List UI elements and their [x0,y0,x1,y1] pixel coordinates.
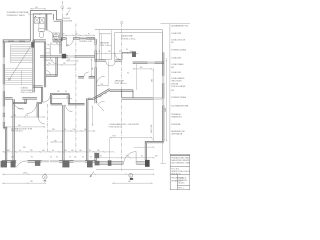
svg-text:90: 90 [52,150,54,152]
dim vertical x92.5 [92,106,94,127]
svg-text:06.2015: 06.2015 [178,182,184,184]
svg-text:NA BUDYNKU MIESZK.: NA BUDYNKU MIESZK. [171,159,190,162]
dim line y183 left [2,182,46,184]
door arc x38 [38,118,45,125]
dim line y53 top annex [95,53,138,55]
svg-text:LOKAL HANDEL: LOKAL HANDEL [171,77,185,80]
fixture small dark [35,16,36,17]
svg-text:110: 110 [71,150,74,152]
wall bottom left y161 [2,161,96,163]
svg-text:90: 90 [82,157,84,159]
svg-text:SZER. 280: SZER. 280 [151,125,153,133]
svg-text:PRZEBIEGI: PRZEBIEGI [171,114,181,116]
svg-text:LOKAL NR3: LOKAL NR3 [171,32,181,35]
svg-text:10.80: 10.80 [165,108,167,112]
pier x95 bottom [94,153,99,158]
wire sill line y169.7 [96,169,154,171]
window right wall upper [162,76,164,84]
door arc zaplecze [96,76,104,84]
pier stair top [31,42,34,48]
dim vertical x166.3 outside right wall [165,58,167,141]
fixture small rect room2 [46,49,51,54]
svg-text:90: 90 [141,156,143,158]
door arc stair exit [13,99,23,109]
text lokal handlowy [109,123,140,129]
wall mid horizontal y56 [40,56,95,57]
dim ext x108.7 [108,61,110,84]
text pomieszczenia right of entry [79,38,94,43]
pier bottom 4 [62,161,69,168]
door arc below y57 wall [51,57,57,63]
svg-text:110: 110 [74,157,77,159]
window bottom 1 [42,160,60,163]
window zaplecze west wall 2 [95,62,97,68]
svg-text:55: 55 [69,157,71,159]
fixture sink with X 2 [40,17,45,23]
dim line y174 [2,173,154,175]
wall hall left x87 [86,98,88,161]
legend text column [171,25,189,136]
svg-text:90: 90 [127,72,129,74]
svg-text:RZUT PARTERU - INWENT.: RZUT PARTERU - INWENT. [171,162,190,165]
svg-text:KUCHNIA BIUROWA: KUCHNIA BIUROWA [171,105,189,108]
wall left outer [3,40,7,161]
svg-text:345: 345 [18,125,21,127]
axis circle 2 [43,175,47,182]
svg-text:LOKAL HANDLOWO - USŁUGOWY: LOKAL HANDLOWO - USŁUGOWY [109,123,140,126]
svg-text:LOKAL NR5: LOKAL NR5 [171,71,181,74]
door opening bottom left [16,160,27,163]
wall corridor left x13 [13,99,14,161]
svg-text:USŁUGOWY: USŁUGOWY [171,81,182,83]
svg-text:PRZEBUDOWA LOKALU U: PRZEBUDOWA LOKALU U [171,156,190,159]
svg-text:165: 165 [127,156,130,158]
stairs direction arrow [9,47,31,81]
svg-text:120: 120 [57,91,60,93]
node POL label [62,18,72,22]
window hall north right part [153,98,163,99]
dim vertical x91.5 [91,58,93,77]
svg-text:367: 367 [30,181,33,183]
text warsztat [100,41,112,46]
dim y60.9 [66,60,78,62]
svg-text:140: 140 [42,150,45,152]
dim y68.9 annex [133,68,152,70]
wire rect connectors [99,30,111,34]
door arc room B [27,104,37,114]
fixture round boiler [53,33,60,40]
pier bottom 2 [11,161,16,168]
wire top line annex y29.6 [95,30,162,53]
svg-text:20: 20 [50,157,52,159]
wall main top right span [61,38,95,39]
room annex small rect [99,34,111,60]
svg-text:280: 280 [152,79,154,82]
svg-text:345: 345 [54,140,57,142]
svg-text:LOKAL UWAGI: LOKAL UWAGI [171,63,184,66]
wall corridor y103 [13,102,85,105]
dim line y113 [10,116,45,118]
wall vertical x56 [56,57,57,76]
svg-text:4.95: 4.95 [25,115,28,117]
svg-text:PRZEWODY WENT.: PRZEWODY WENT. [7,15,26,17]
text nadbudowa inside [121,35,136,41]
axis circle 1 [129,173,133,180]
leader arrow bottom [90,172,94,178]
stairs landing line [5,67,33,69]
text klatka schodowa [21,87,33,95]
svg-text:POM.SOCJALNE: POM.SOCJALNE [171,85,186,88]
svg-text:KOMINEK ROZBIÓRKA: KOMINEK ROZBIÓRKA [7,11,29,14]
svg-text:90: 90 [56,157,58,159]
door arc room y70 [46,71,51,76]
window bottom 2 [74,160,86,163]
wall bottom right y162 [96,162,145,164]
svg-text:7.98: 7.98 [112,136,115,138]
svg-text:ŁAZIENKA POM.: ŁAZIENKA POM. [171,130,185,133]
svg-text:140: 140 [79,150,82,152]
svg-text:POM. 11.06 m²: POM. 11.06 m² [100,44,112,47]
svg-text:RYS. 1: RYS. 1 [178,187,183,189]
wall stair shaft right [33,40,34,92]
dim line interior y65 [46,64,76,66]
pier bottom 1 [1,161,7,168]
axis mark top x62.3 [61,6,64,9]
svg-text:60.5: 60.5 [11,157,14,159]
svg-text:DRUGIE: DRUGIE [171,83,179,85]
svg-text:POZ.+1-1.5m2: POZ.+1-1.5m2 [21,92,33,94]
svg-text:345: 345 [52,129,55,131]
door arc corridor NE [115,53,122,60]
wall right outer x163 [163,52,164,141]
window annex top wall [147,62,155,64]
pier mid bottom [108,160,112,166]
wall vestibule x68.8 [68,95,69,104]
wall x95 lower [95,153,96,162]
svg-text:POW. 36.40 m²: POW. 36.40 m² [115,82,128,85]
window zaplecze west wall [95,45,97,51]
svg-text:55: 55 [90,157,92,159]
window left wall 3 [3,106,5,113]
stairs upper flight treads [11,45,33,63]
dim line y137 [110,137,153,160]
svg-text:245: 245 [30,150,33,152]
svg-text:SKALA 1:50: SKALA 1:50 [171,172,180,175]
svg-text:90: 90 [31,157,33,159]
svg-text:110: 110 [63,63,66,65]
wall jog up right of door [122,52,132,60]
wire thin line y147 right [134,146,154,148]
svg-text:560: 560 [128,181,131,183]
svg-text:POW. 48.30 m²: POW. 48.30 m² [11,130,24,133]
wall under bay [33,40,61,42]
wall stub x24.9 [25,99,26,104]
door arc bottom right [124,152,137,164]
svg-text:POMIESZCZENIA: POMIESZCZENIA [171,96,186,99]
svg-text:POZ.2.85786: POZ.2.85786 [62,20,72,22]
svg-text:90: 90 [50,43,52,45]
wall stair bottom [5,98,38,99]
svg-text:90: 90 [88,33,90,35]
svg-text:90: 90 [63,33,65,35]
wall horizontal y75 [46,75,58,76]
svg-text:LOKAL OBLICZE: LOKAL OBLICZE [171,38,186,41]
wire axis line D [47,104,49,152]
wall annex top right y66 [133,62,164,64]
svg-text:90: 90 [56,43,58,45]
svg-text:260: 260 [75,33,78,35]
svg-text:120: 120 [108,51,111,53]
svg-text:165: 165 [155,155,158,157]
svg-text:POW. 86.30 m²: POW. 86.30 m² [109,126,122,129]
wall horizontal y77 right [78,77,95,78]
svg-text:345: 345 [23,147,26,149]
wall zaplecze left x95 [95,38,96,104]
svg-text:NADBUDOWA: NADBUDOWA [121,35,133,38]
door arc corridor x42-50 [43,95,51,103]
wall jog x133 [132,90,134,98]
svg-text:90: 90 [65,91,67,93]
svg-text:190: 190 [101,84,104,86]
dim line y183 right [112,182,152,184]
svg-text:2.35: 2.35 [73,129,76,131]
dim vertical x50 [49,45,51,56]
door arc wall y77 [84,72,89,77]
window left wall 1 [3,57,5,65]
svg-text:90: 90 [98,51,100,53]
pier bottom right dark [145,160,150,167]
window right wall [162,98,164,106]
svg-text:90: 90 [89,150,91,152]
text lokal mieszkalny left [11,127,33,132]
wall vertical x45 [44,42,45,88]
dim line y158 right [96,157,154,159]
svg-text:POZIOM +1.08 niż.: POZIOM +1.08 niż. [121,38,136,40]
pier corner NE [132,51,136,57]
dim ext x136.6 [136,64,138,90]
wall vertical x37 below [37,104,38,118]
fixture sink with X 1 [34,17,39,23]
svg-text:120: 120 [35,7,38,9]
door arc corridor y105 [66,105,73,112]
door gap wall y56 [68,55,75,57]
node top level annotation [66,8,71,16]
dim ext x162.6 [160,141,166,163]
wall mid x63 [63,105,64,161]
window top-left wall [8,39,25,42]
wire axis line B [75,24,77,153]
wall horizontal y86 [33,86,43,87]
wire axis line C [121,24,123,171]
dim line y127 [5,126,45,128]
svg-text:90: 90 [100,156,102,158]
dim line above bay [30,8,45,10]
wall corner x50 y93 [51,93,70,103]
fixture toilet [39,29,45,38]
svg-text:235: 235 [64,150,67,152]
door arc entry hall [66,39,73,46]
svg-text:POMIESZCZENIA: POMIESZCZENIA [171,49,186,52]
svg-text:POKÓJ: POKÓJ [18,107,24,110]
door arc bay wc [47,31,54,39]
svg-text:90: 90 [119,51,121,53]
wall jog y98 [88,98,93,99]
dim interior y98 [52,98,72,100]
wall diagonal chamfer [93,89,110,100]
window left wall 4 [3,117,5,123]
dim line interior y45 [47,44,62,46]
svg-text:+8.85: +8.85 [67,8,71,10]
dim vertical x153 [152,68,154,141]
dim row y35 top right span [61,34,95,36]
svg-text:110: 110 [14,115,17,117]
wall main top left span [3,40,31,42]
svg-text:255: 255 [48,63,51,65]
pier at step x61 [61,38,63,42]
dim y85.6 [97,85,109,87]
dim row y152 [2,151,115,153]
window top wall right [80,37,86,39]
wire axis line A [61,1,63,41]
svg-text:90: 90 [126,49,128,51]
legend rule right [161,24,190,155]
svg-text:165: 165 [140,67,143,69]
svg-text:140: 140 [84,129,87,131]
svg-text:LOKAL NR6: LOKAL NR6 [171,56,181,59]
wall hall bottom right y142 [145,141,164,160]
door leaf diagonal [98,105,104,112]
wall vert x42 [42,87,43,103]
svg-text:19.95: 19.95 [23,173,27,175]
svg-text:CENTRALNA: CENTRALNA [171,133,183,136]
wire top-left annotation text [7,11,42,17]
dim row y131 center [48,130,95,132]
door opening and arc entry [66,37,73,39]
wall hall top right y90 [110,90,154,99]
svg-text:KOMÓRKA: KOMÓRKA [171,123,181,126]
svg-text:90: 90 [64,129,66,131]
stairs lower flight treads [5,71,33,86]
svg-text:ZESTAWIENIE POM.: ZESTAWIENIE POM. [171,25,189,28]
svg-text:PONIŻEJ +8.85: PONIŻEJ +8.85 [79,40,92,43]
title block [170,155,190,190]
room annex nadbudowa rect [115,33,163,62]
svg-text:255: 255 [68,59,71,61]
svg-text:40.5: 40.5 [7,150,10,152]
svg-text:POKÓJ 2.1: POKÓJ 2.1 [44,59,53,62]
pier bottom 3 [35,160,40,166]
pier chimney mid [60,42,61,54]
svg-text:90: 90 [19,150,21,152]
svg-text:255: 255 [92,67,94,70]
text zaplecze [115,79,128,84]
svg-text:WŁASNOŚCI: WŁASNOŚCI [171,116,182,119]
wall wc compartment [39,23,45,29]
pier bottom 5 [87,161,93,168]
dim y142 small [51,141,63,143]
wall zaplecze top y60 [95,60,122,61]
svg-text:110: 110 [66,45,69,47]
door double arcs [106,61,111,66]
door arc bottom left [16,161,27,167]
bay top-left walls [30,11,62,42]
axis mark top x121.7 [121,21,123,23]
svg-text:110: 110 [97,150,100,152]
window left wall 2 [3,84,5,92]
